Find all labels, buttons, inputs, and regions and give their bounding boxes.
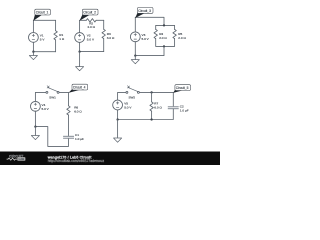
resistor R6 (67, 106, 70, 115)
wire V3 top stub (134, 17, 136, 32)
node Circuit_1 flag (33, 14, 41, 21)
svg-text:Circuit_3: Circuit_3 (138, 9, 151, 13)
svg-text:SW2: SW2 (128, 95, 135, 99)
wire top-left C2 (80, 19, 87, 21)
wire V5 top stub (118, 92, 126, 100)
label V4 value (42, 103, 50, 111)
resistor R3 (102, 29, 105, 38)
wire top bar C3 (156, 25, 175, 29)
svg-text:6.0 Ω: 6.0 Ω (74, 110, 82, 114)
node junction V5 bottom (116, 118, 118, 120)
node junction C1 (32, 51, 34, 53)
wire R3 bottom stub (103, 39, 105, 52)
label R7 value (154, 102, 162, 110)
label V5 value (124, 101, 132, 109)
svg-text:1.0 µF: 1.0 µF (75, 137, 84, 141)
label V2 value (87, 34, 95, 42)
logo CircuitLab (7, 155, 26, 161)
svg-text:5 V: 5 V (40, 38, 46, 42)
node junction top C3 (163, 24, 165, 26)
svg-text:5.0 V: 5.0 V (42, 107, 50, 111)
wire V5 bottom stub (117, 110, 119, 120)
resistor R1 (54, 31, 57, 40)
wire switch to corner C5 (139, 92, 173, 106)
wire bottom C2 (80, 51, 104, 53)
ground (29, 56, 37, 60)
label V3 value (142, 33, 150, 41)
switch SW2 (126, 86, 139, 94)
wire ground stub C2 (79, 52, 81, 67)
wire bottom bar C3 (156, 39, 175, 47)
wire C1cap to bottom (35, 127, 68, 147)
node junction C2 (78, 50, 80, 52)
wire C2cap to bottom (118, 109, 174, 119)
label R2 value (87, 21, 95, 29)
resistor R7 (150, 102, 153, 111)
svg-text:SW1: SW1 (49, 95, 56, 99)
wire bottom C3 (135, 46, 164, 55)
node junction R7 top (150, 91, 152, 93)
label R4 value (159, 32, 167, 40)
label R6 value (74, 106, 82, 114)
wire V2 bottom stub (79, 42, 81, 51)
ground (114, 138, 122, 142)
svg-text:Circuit_1: Circuit_1 (36, 11, 49, 15)
voltage source V3 (130, 32, 140, 42)
wire top C3 (135, 17, 164, 25)
svg-text:1.0 µF: 1.0 µF (180, 108, 189, 112)
wire ground stub C4 (34, 127, 36, 136)
svg-text:Circuit_2: Circuit_2 (83, 11, 96, 15)
label R1 value (59, 33, 65, 41)
wire ground stub C5 (117, 120, 119, 139)
wire switch to corner C4 (59, 92, 68, 105)
node junction C4 (34, 125, 36, 127)
node junction left C3 (134, 54, 136, 56)
wire top-right C2 (96, 19, 104, 21)
svg-text:5.0 V: 5.0 V (142, 37, 150, 41)
node Circuit_3 box (137, 8, 153, 14)
svg-text:3.0 Ω: 3.0 Ω (107, 36, 115, 40)
node Circuit_3 flag (135, 12, 144, 18)
ground (131, 60, 139, 64)
resistor R2 (86, 19, 96, 22)
wire R3 top stub (103, 20, 105, 29)
wire bottom C1 (33, 51, 55, 53)
svg-text:2.0 Ω: 2.0 Ω (87, 25, 95, 29)
wire V4 bottom stub (34, 111, 36, 126)
switch SW1 (46, 86, 59, 94)
svg-text:1 Ω: 1 Ω (59, 37, 65, 41)
node junction R7 bottom (150, 118, 152, 120)
wire top C1 (33, 19, 55, 21)
wire V3 bottom stub (134, 42, 136, 56)
svg-text:2.0 Ω: 2.0 Ω (178, 36, 186, 40)
label R5 value (178, 32, 186, 40)
voltage source V5 (113, 100, 123, 110)
wire V1 bottom stub (32, 42, 34, 51)
ground (76, 67, 84, 71)
svg-text:5.0 V: 5.0 V (124, 105, 132, 109)
svg-text:2.0 Ω: 2.0 Ω (159, 36, 167, 40)
wire R1 top stub (55, 20, 57, 30)
wire R6 to C1cap (68, 115, 70, 136)
node Circuit_5 flag (173, 90, 182, 93)
node junction bottom C3 (163, 45, 165, 47)
wire V2 top stub (79, 20, 81, 32)
voltage source V4 (31, 101, 41, 111)
wire ground stub C3 (134, 56, 136, 60)
wire R1 bottom stub (55, 40, 57, 52)
svg-text:Circuit_5: Circuit_5 (176, 86, 189, 90)
wire V1 top stub (32, 20, 34, 32)
node Circuit_2 flag (80, 14, 90, 21)
svg-text:LAB: LAB (19, 157, 25, 161)
label C2 value (180, 104, 189, 112)
resistor R4 (154, 29, 157, 38)
voltage source V2 (75, 33, 85, 43)
svg-text:Circuit_4: Circuit_4 (73, 86, 86, 90)
label C1 value (75, 133, 84, 141)
node Circuit_1 box (35, 9, 51, 15)
wire R7 top stub (151, 92, 153, 102)
node Circuit_5 box (175, 85, 191, 91)
node Circuit_2 box (82, 9, 98, 15)
resistor R5 (173, 29, 176, 38)
voltage source V1 (29, 33, 39, 43)
svg-text:6.0 Ω: 6.0 Ω (154, 106, 162, 110)
wire V4 top stub (35, 92, 46, 101)
wire ground stub C1 (32, 52, 34, 56)
node Circuit_4 flag (68, 89, 78, 93)
capacitor C1 (63, 136, 74, 139)
svg-text:5.0 V: 5.0 V (87, 38, 95, 42)
wire R7 bottom stub (151, 111, 153, 119)
ground (31, 136, 39, 140)
svg-text:http://circuitlab.com/c66EJ7ad: http://circuitlab.com/c66EJ7ademcuz (48, 159, 105, 163)
node Circuit_4 box (72, 84, 88, 90)
label V1 value (40, 34, 46, 42)
label R3 value (107, 32, 115, 40)
capacitor C2 (168, 106, 179, 109)
